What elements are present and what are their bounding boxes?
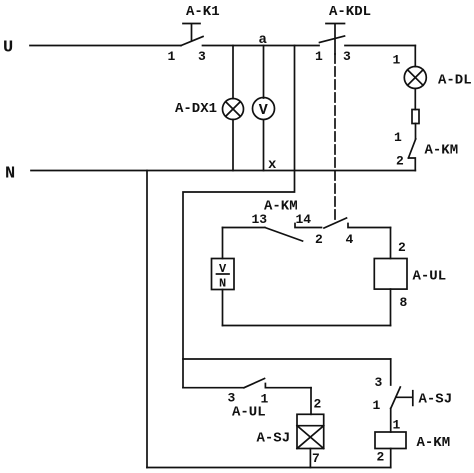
svg-text:1: 1 <box>394 130 402 145</box>
svg-text:3: 3 <box>198 49 206 64</box>
svg-text:A-K1: A-K1 <box>186 4 220 20</box>
svg-text:A-KM: A-KM <box>264 199 298 215</box>
svg-text:V: V <box>259 102 268 119</box>
svg-text:3: 3 <box>375 375 383 390</box>
svg-text:2: 2 <box>377 450 385 465</box>
svg-text:2: 2 <box>314 397 322 412</box>
svg-text:A-UL: A-UL <box>413 269 447 285</box>
svg-text:1: 1 <box>168 49 176 64</box>
svg-text:1: 1 <box>373 398 381 413</box>
svg-text:U: U <box>3 39 13 58</box>
svg-text:14: 14 <box>296 212 312 227</box>
svg-text:A-KDL: A-KDL <box>329 4 371 20</box>
svg-text:A-DL: A-DL <box>438 73 472 89</box>
svg-text:1: 1 <box>393 418 401 433</box>
svg-text:A-SJ: A-SJ <box>257 431 291 447</box>
svg-text:N: N <box>5 165 15 184</box>
svg-text:8: 8 <box>400 295 408 310</box>
svg-text:3: 3 <box>228 391 236 406</box>
svg-text:7: 7 <box>312 451 320 466</box>
svg-text:A-UL: A-UL <box>232 405 266 421</box>
svg-text:2: 2 <box>315 232 323 247</box>
svg-text:3: 3 <box>343 49 351 64</box>
svg-text:13: 13 <box>252 212 268 227</box>
svg-text:1: 1 <box>315 49 323 64</box>
svg-text:a: a <box>259 32 268 48</box>
svg-text:N: N <box>219 277 226 291</box>
svg-text:A-DX1: A-DX1 <box>175 101 217 117</box>
svg-text:A-SJ: A-SJ <box>419 392 453 408</box>
svg-text:A-KM: A-KM <box>417 435 451 451</box>
svg-text:A-KM: A-KM <box>425 143 459 159</box>
svg-text:2: 2 <box>396 154 404 169</box>
svg-text:1: 1 <box>393 53 401 68</box>
svg-text:4: 4 <box>346 232 354 247</box>
svg-text:2: 2 <box>398 240 406 255</box>
